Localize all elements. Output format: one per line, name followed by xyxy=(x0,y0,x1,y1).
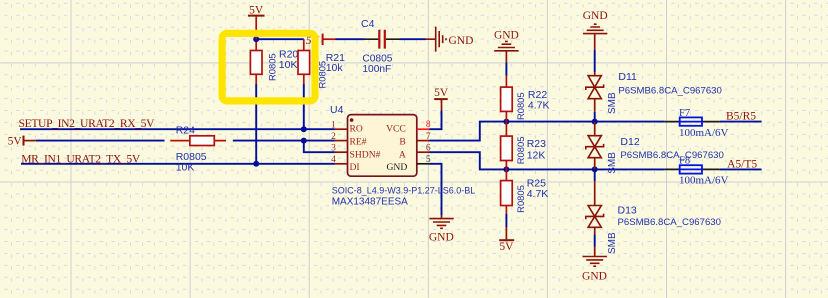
svg-text:7: 7 xyxy=(426,132,431,142)
wire R24 to pin2 xyxy=(233,140,335,142)
wire F7 to B5/R5 xyxy=(720,121,762,123)
wire SETUP_IN2 net to pin1 xyxy=(20,128,335,130)
svg-text:MAX13487EESA: MAX13487EESA xyxy=(332,197,408,208)
capacitor C4 xyxy=(361,18,400,75)
svg-text:GND: GND xyxy=(494,29,519,41)
power port GND right of C4 xyxy=(426,27,474,52)
svg-text:D11: D11 xyxy=(618,71,637,83)
wire R20 bottom to MR net xyxy=(255,84,257,164)
wire D13 bottom to GND xyxy=(594,235,596,247)
net label SETUP_IN2_URAT2_RX_5V xyxy=(19,117,156,130)
svg-text:3: 3 xyxy=(331,144,336,154)
junction R22 R23 on B rail xyxy=(503,119,509,125)
svg-text:D13: D13 xyxy=(618,205,637,217)
svg-text:5V: 5V xyxy=(434,87,449,99)
net label MR_IN1_URAT2_TX_5V xyxy=(21,153,141,166)
svg-text:R0805: R0805 xyxy=(515,185,526,213)
svg-text:100mA/6V: 100mA/6V xyxy=(679,127,729,139)
fuse F8 xyxy=(664,156,728,187)
resistor R24 xyxy=(170,125,226,174)
op-amp U4 MAX13487EESA body xyxy=(330,104,475,208)
net label A5/T5 xyxy=(727,159,757,171)
svg-text:F8: F8 xyxy=(679,156,690,167)
svg-text:D12: D12 xyxy=(620,136,639,148)
junction D12 D13 on A rail xyxy=(592,166,598,172)
svg-text:A: A xyxy=(399,149,406,160)
svg-text:SMB: SMB xyxy=(607,152,618,174)
svg-text:10K: 10K xyxy=(279,59,298,71)
svg-text:R0805: R0805 xyxy=(515,137,526,165)
junction pin2 branch xyxy=(301,138,307,144)
svg-text:VCC: VCC xyxy=(386,123,406,134)
pin 7 B xyxy=(399,132,431,148)
power port 5V above pin8 xyxy=(434,87,449,111)
diode D12 xyxy=(586,122,724,174)
svg-text:P6SMB6.8CA_C967630: P6SMB6.8CA_C967630 xyxy=(620,150,723,161)
power port GND below IC pin5 xyxy=(429,215,454,244)
wire pin6 A to F8 rail xyxy=(430,152,665,169)
svg-text:4: 4 xyxy=(331,155,336,165)
svg-text:GND: GND xyxy=(582,271,607,283)
wire pin5 GND riser xyxy=(430,164,442,216)
wire GND to R22 top xyxy=(505,62,507,75)
svg-text:B: B xyxy=(399,137,405,148)
junction D11 D12 on B rail xyxy=(592,119,598,125)
wire C4 to GND port xyxy=(400,38,426,40)
svg-text:U4: U4 xyxy=(330,104,344,116)
svg-text:SETUP_IN2_URAT2_RX_5V: SETUP_IN2_URAT2_RX_5V xyxy=(19,117,156,130)
svg-text:6: 6 xyxy=(426,143,431,153)
wire 5V port to R24 xyxy=(36,140,165,142)
resistor R23 xyxy=(501,122,547,170)
svg-text:GND: GND xyxy=(583,10,608,22)
svg-text:5V: 5V xyxy=(499,241,514,253)
pin 6 A xyxy=(399,143,431,160)
pin 5 GND xyxy=(387,155,431,173)
svg-text:B5/R5: B5/R5 xyxy=(726,111,756,123)
wire MR_IN1 net to pin4 xyxy=(21,163,335,165)
svg-text:SMB: SMB xyxy=(607,232,618,254)
svg-text:C0805: C0805 xyxy=(362,53,392,64)
junction R23 R25 on A rail xyxy=(503,166,509,172)
power port GND above R22 xyxy=(494,29,519,62)
wire pin7 B to F7 rail xyxy=(430,122,665,141)
power port 5V far left xyxy=(8,135,36,147)
svg-text:10K: 10K xyxy=(176,161,195,173)
svg-text:2: 2 xyxy=(331,132,336,142)
wire 5V junction to R20 R21 tops xyxy=(255,38,304,40)
fuse F7 xyxy=(664,108,728,139)
svg-text:R24: R24 xyxy=(176,125,195,137)
wire R21 bottom to SETUP net xyxy=(303,84,305,129)
svg-text:SHDN#: SHDN# xyxy=(350,149,381,160)
svg-text:100nF: 100nF xyxy=(362,64,391,75)
svg-text:12K: 12K xyxy=(527,150,546,162)
highlight box around R20/R21 xyxy=(222,33,315,101)
diode D13 xyxy=(586,181,721,254)
wire pin2 branch down to pin3 xyxy=(304,141,335,153)
svg-text:GND: GND xyxy=(429,232,454,244)
svg-text:R0805: R0805 xyxy=(266,53,277,81)
wire pin8 to 5V port riser xyxy=(430,111,442,130)
resistor R25 xyxy=(501,169,549,213)
svg-text:DI: DI xyxy=(350,162,360,173)
svg-text:MR_IN1_URAT2_TX_5V: MR_IN1_URAT2_TX_5V xyxy=(21,153,141,166)
junction 5V above R20 xyxy=(253,36,259,42)
svg-text:100mA/6V: 100mA/6V xyxy=(679,174,729,186)
svg-text:4.7K: 4.7K xyxy=(528,100,550,112)
wire GND to D11 top xyxy=(594,50,596,72)
wire 5V port to C4 xyxy=(336,38,365,40)
pin 8 VCC xyxy=(386,120,431,134)
power port GND above D11 xyxy=(583,10,608,50)
svg-text:8: 8 xyxy=(426,120,431,130)
junction R21 on SETUP net xyxy=(301,126,307,132)
svg-text:RE#: RE# xyxy=(350,137,367,148)
power port 5V left of C4 xyxy=(306,34,336,48)
wire D11 bottom to rail xyxy=(594,112,596,122)
resistor R20 xyxy=(250,42,298,84)
svg-text:R23: R23 xyxy=(527,138,546,150)
svg-text:R0805: R0805 xyxy=(515,92,526,120)
svg-text:P6SMB6.8CA_C967630: P6SMB6.8CA_C967630 xyxy=(618,217,721,228)
wire rail to D13 top xyxy=(594,169,596,181)
pin 3 SHDN# xyxy=(331,144,380,161)
svg-text:P6SMB6.8CA_C967630: P6SMB6.8CA_C967630 xyxy=(618,85,721,96)
svg-text:4.7K: 4.7K xyxy=(527,188,549,200)
svg-text:GND: GND xyxy=(449,35,474,47)
svg-text:A5/T5: A5/T5 xyxy=(727,159,757,171)
pin 4 DI xyxy=(331,155,360,173)
pin 1 RO xyxy=(331,121,363,135)
svg-text:1: 1 xyxy=(331,121,336,131)
power port 5V top left xyxy=(248,5,265,40)
resistor R21 xyxy=(298,39,345,88)
wire R25 bottom to 5V port xyxy=(505,214,507,227)
svg-text:SMB: SMB xyxy=(607,92,618,114)
wire F8 to A5/T5 xyxy=(720,168,762,170)
svg-text:F7: F7 xyxy=(679,108,690,119)
svg-text:SOIC-8_L4.9-W3.9-P1.27-LS6.0-B: SOIC-8_L4.9-W3.9-P1.27-LS6.0-BL xyxy=(332,185,476,195)
net label B5/R5 xyxy=(726,111,756,123)
svg-text:RO: RO xyxy=(350,123,363,134)
resistor R22 xyxy=(501,76,550,122)
svg-text:C4: C4 xyxy=(361,18,375,30)
diode D11 xyxy=(586,71,722,114)
svg-text:5: 5 xyxy=(426,155,431,165)
power port 5V below R25 xyxy=(499,227,514,253)
svg-text:10k: 10k xyxy=(326,62,344,74)
pin 2 RE# xyxy=(331,132,367,148)
power port GND below D13 xyxy=(582,247,607,283)
svg-text:GND: GND xyxy=(387,162,408,173)
junction R20 on MR net xyxy=(253,161,259,167)
svg-text:5V: 5V xyxy=(8,135,23,147)
